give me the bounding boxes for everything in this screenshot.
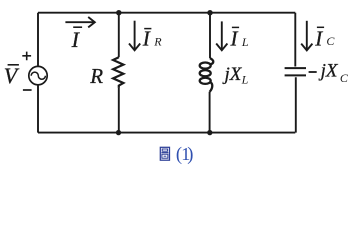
wire top horizontal bbox=[38, 12, 295, 14]
wire L branch leads bbox=[209, 13, 211, 133]
svg-text:): ) bbox=[187, 145, 193, 165]
svg-text:C: C bbox=[326, 34, 335, 48]
svg-text:C: C bbox=[340, 71, 349, 85]
node bottom-L junction bbox=[207, 130, 212, 135]
node top-R junction bbox=[116, 10, 121, 15]
svg-text:R: R bbox=[89, 64, 103, 88]
svg-text:I: I bbox=[71, 27, 81, 52]
capacitor C plates bbox=[285, 68, 306, 75]
svg-text:I: I bbox=[314, 26, 323, 50]
svg-text:jX: jX bbox=[222, 64, 243, 85]
svg-text:I: I bbox=[230, 26, 239, 50]
arrow IR bbox=[129, 21, 140, 51]
inductor L coil bbox=[200, 58, 214, 92]
source plus sign bbox=[22, 52, 31, 61]
wire bottom horizontal bbox=[38, 132, 295, 134]
source V1 circle bbox=[29, 66, 47, 84]
arrow IL bbox=[216, 21, 227, 50]
arrow I (top current) bbox=[65, 17, 94, 27]
label -jXC bbox=[309, 71, 317, 73]
wire left vertical (source branch) bbox=[37, 13, 39, 133]
caption glyph (figure char) bbox=[160, 147, 169, 160]
node top-L junction bbox=[207, 10, 212, 15]
arrow IC bbox=[301, 21, 312, 51]
source V1 sine bbox=[31, 72, 45, 79]
svg-text:L: L bbox=[241, 73, 249, 87]
resistor R bbox=[113, 57, 123, 88]
wire C branch leads bbox=[294, 13, 297, 133]
node bottom-R junction bbox=[116, 130, 121, 135]
wire R branch leads bbox=[118, 13, 120, 133]
svg-text:jX: jX bbox=[318, 60, 339, 81]
svg-text:L: L bbox=[241, 35, 249, 49]
svg-text:V: V bbox=[4, 63, 20, 88]
svg-text:R: R bbox=[153, 35, 162, 49]
source minus sign bbox=[23, 89, 32, 91]
svg-text:I: I bbox=[142, 27, 151, 51]
